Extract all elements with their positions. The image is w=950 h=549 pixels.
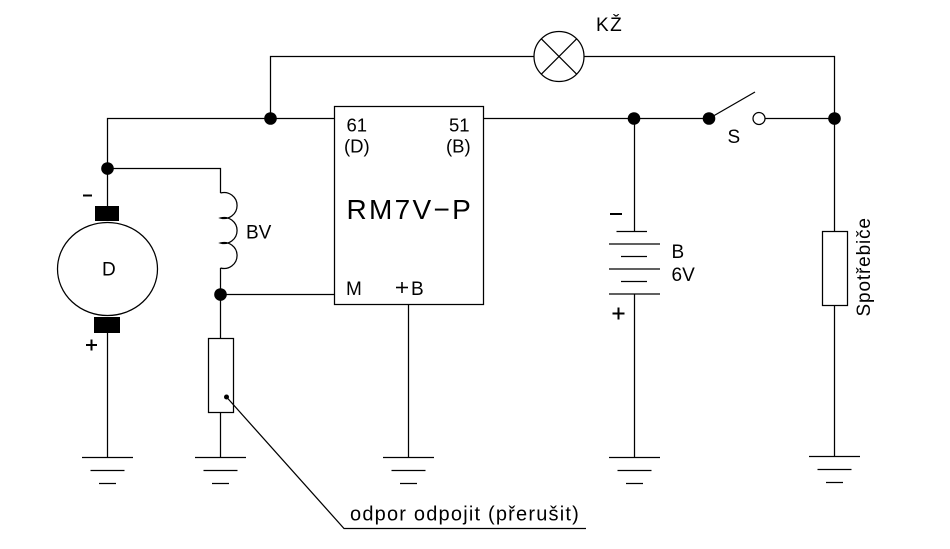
label plus dynamo [86, 340, 97, 351]
svg-text:M: M [346, 279, 362, 300]
node junction M [214, 288, 227, 301]
wire top bus left segment [271, 57, 535, 119]
lamp KZ [534, 32, 584, 82]
svg-text:(B): (B) [446, 136, 471, 157]
wire node to resistor [220, 295, 222, 339]
node junction dynamo [101, 162, 114, 175]
leader callout resistor [224, 395, 586, 529]
wire resistor to ground [220, 413, 222, 458]
svg-text:B: B [411, 279, 424, 300]
svg-text:RM7V−P: RM7V−P [347, 194, 474, 225]
ground regulator [383, 458, 434, 484]
svg-text:Spotřebiče: Spotřebiče [854, 217, 875, 316]
node junction right bus [828, 112, 841, 125]
svg-text:KŽ: KŽ [596, 14, 623, 36]
wire pin 51 to switch [484, 118, 710, 120]
wire switch to right bus [765, 118, 835, 120]
ground dynamo [82, 458, 133, 484]
wire battery bottom lead [634, 294, 636, 458]
wire load to ground [834, 306, 836, 457]
ground resistor [195, 458, 246, 484]
wire node to pin M [221, 294, 335, 296]
wire pin +B to ground [408, 305, 410, 458]
wire top bus right segment [584, 57, 835, 232]
ground load [809, 457, 860, 483]
svg-text:BV: BV [246, 223, 272, 244]
wire inductor to node M [220, 268, 222, 295]
svg-text:D: D [102, 260, 116, 281]
svg-text:odpor odpojit (přerušit): odpor odpojit (přerušit) [350, 504, 580, 526]
ground battery [609, 458, 660, 484]
svg-text:S: S [728, 127, 741, 148]
svg-text:6V: 6V [672, 265, 696, 286]
resistor odpor [209, 339, 234, 413]
svg-text:(D): (D) [344, 136, 370, 157]
label plus battery [613, 308, 625, 320]
wire dynamo bottom lead [107, 333, 109, 458]
switch S [703, 92, 765, 125]
dynamo D [58, 206, 158, 333]
pin label +B [396, 282, 408, 293]
wire main bus y118 [108, 119, 335, 169]
node junction battery [628, 112, 641, 125]
svg-text:B: B [672, 242, 685, 263]
svg-text:61: 61 [347, 115, 368, 136]
wire to inductor [108, 169, 221, 194]
wire battery top lead [634, 119, 636, 232]
node junction bus-lamp [264, 112, 277, 125]
label minus battery [610, 213, 622, 215]
wire dynamo top lead [107, 169, 109, 207]
regulator U1 RM7V-P [335, 107, 484, 305]
label minus dynamo [83, 195, 92, 197]
battery B 6V [609, 232, 660, 295]
svg-text:51: 51 [449, 115, 470, 136]
inductor BV [221, 193, 238, 269]
resistor load Spotrebice [823, 232, 848, 306]
